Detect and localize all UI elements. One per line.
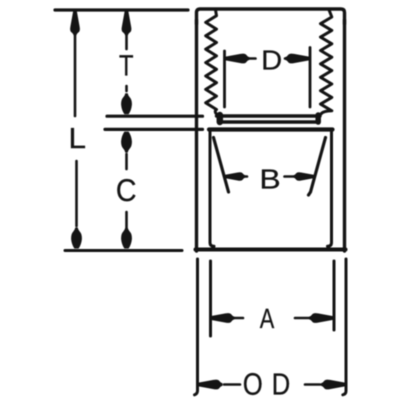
shoulder extension line left: [105, 128, 203, 131]
outer-right extension line below body: [343, 259, 346, 395]
dimension OD left arrow: [199, 380, 223, 390]
left thread zigzag: [206, 10, 217, 114]
dimension D left shaft: [247, 57, 256, 60]
dimension OD right shaft: [305, 383, 320, 386]
dimension B left shaft: [241, 175, 247, 178]
dimension A left arrow: [211, 313, 235, 323]
dimension OD left shaft: [224, 383, 240, 386]
thread relief step right: [315, 115, 321, 122]
inner-left extension line below body: [209, 261, 212, 336]
stop ring inner line: [223, 120, 319, 123]
bottom-left extension line: [65, 249, 182, 252]
socket right wall: [328, 131, 332, 246]
dimension D right shaft: [285, 57, 289, 60]
label C: [117, 179, 135, 201]
outer-left extension line below body: [195, 259, 198, 395]
dimension OD right arrow: [321, 380, 345, 390]
label D: [263, 51, 280, 70]
dimension C upper shaft: [125, 154, 128, 169]
dimension B left arrow: [225, 172, 246, 181]
socket left wall: [210, 131, 214, 246]
body left wall: [195, 20, 198, 251]
inner-right extension line below body: [333, 261, 336, 330]
body right wall: [343, 20, 346, 251]
shoulder inner line: [209, 127, 333, 131]
D extension line left: [223, 51, 226, 107]
dimension C lower shaft: [125, 212, 128, 227]
label D2: [274, 374, 289, 395]
dimension C upper arrow: [121, 132, 132, 153]
thread end inner line: [217, 114, 321, 117]
dimension C lower arrow: [121, 228, 132, 249]
label O: [244, 373, 262, 395]
D extension line right: [309, 48, 312, 108]
dimension L lower arrow: [71, 228, 82, 249]
dimension L upper shaft: [74, 34, 77, 116]
dimension T lower shaft: [125, 86, 128, 91]
dimension D right arrow: [285, 54, 309, 64]
dimension B right shaft: [285, 175, 297, 178]
dimension A right arrow: [309, 313, 333, 323]
thread relief step left: [217, 115, 224, 122]
dimension D left arrow: [226, 54, 250, 64]
right thread zigzag: [321, 10, 332, 114]
body top edge: [197, 9, 345, 24]
thread end extension line left: [107, 115, 203, 118]
dimension A right shaft: [295, 317, 310, 320]
right taper line: [309, 138, 326, 196]
label L: [71, 128, 85, 148]
label T: [119, 55, 133, 75]
dimension A left shaft: [233, 317, 243, 320]
body bottom edge: [196, 248, 346, 252]
left taper line: [214, 138, 229, 193]
dimension T upper arrow: [122, 12, 132, 36]
label B: [262, 170, 279, 189]
dimension T upper shaft: [125, 34, 128, 49]
dimension B right arrow: [293, 172, 314, 181]
dimension L lower shaft: [75, 161, 78, 226]
top extension line: [55, 8, 188, 11]
dimension T lower arrow: [121, 93, 132, 114]
dimension L upper arrow: [70, 12, 80, 36]
label A: [260, 309, 274, 328]
